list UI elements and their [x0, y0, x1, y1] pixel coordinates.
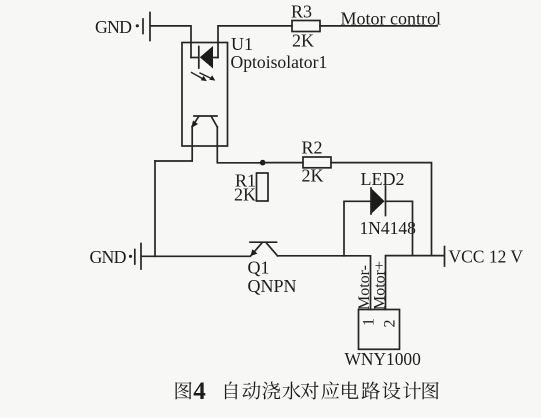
svg-text:2: 2 [381, 320, 398, 328]
transistor Q1 [248, 242, 297, 296]
svg-text:R2: R2 [302, 137, 323, 157]
ground GND (top-left) [95, 13, 150, 41]
resistor R3 [291, 2, 320, 51]
svg-text:R3: R3 [291, 2, 312, 22]
wire: diode to right vertical down to VCC rail [386, 201, 413, 255]
power VCC [445, 246, 524, 266]
svg-text:LED2: LED2 [361, 169, 405, 189]
svg-text:GND: GND [90, 247, 127, 267]
wire: Q1 collector to Motor- pin [278, 256, 371, 310]
svg-text:2K: 2K [292, 31, 314, 51]
phototransistor inside U1 [194, 115, 217, 117]
svg-text:2K: 2K [234, 185, 256, 205]
ground GND (bottom-left) [90, 244, 142, 270]
resistor R2 [302, 137, 332, 185]
wire: R2 to right vertical, down to VCC rail [331, 163, 432, 256]
wire: junction to R2 [263, 162, 303, 164]
svg-text:Motor control: Motor control [341, 9, 442, 29]
wire: left vertical down to ground rail [154, 161, 156, 256]
svg-text:U1: U1 [231, 34, 253, 54]
optoisolator U1 [182, 43, 228, 147]
svg-text:QNPN: QNPN [248, 276, 297, 296]
svg-text:GND: GND [95, 17, 132, 37]
svg-text:4: 4 [193, 378, 206, 405]
wire: U1 collector pin down to R2 node [217, 127, 262, 163]
wire: U1 emitter pin to left vertical [155, 127, 192, 162]
svg-text:2K: 2K [302, 166, 324, 186]
svg-text:1: 1 [361, 318, 378, 326]
diode LED2 1N4148 [360, 169, 417, 238]
light arrows [192, 73, 204, 80]
svg-text:Motor-: Motor- [356, 265, 373, 310]
wire: diode loop left vertical [344, 201, 371, 256]
svg-text:VCC 12 V: VCC 12 V [449, 246, 524, 266]
svg-text:Q1: Q1 [248, 258, 270, 278]
svg-text:Optoisolator1: Optoisolator1 [231, 52, 328, 72]
wire: ground rail to Q1 emitter [142, 255, 250, 257]
wire: top GND to U1 anode pin [151, 26, 191, 58]
wire: U1 cathode pin up and right to R3 [218, 26, 292, 58]
node: junction at R1 top [260, 160, 266, 166]
LED inside U1 [191, 57, 198, 59]
svg-text:WNY1000: WNY1000 [345, 349, 422, 369]
caption: 图4 自动浇水对应电路设计图 [176, 378, 439, 405]
connector WNY1000 [345, 310, 422, 370]
svg-text:Motor+: Motor+ [372, 261, 389, 310]
svg-text:1N4148: 1N4148 [360, 218, 417, 238]
wire: Motor+ pin up to VCC rail segment [386, 256, 445, 310]
wire/net: Motor control stub [320, 25, 437, 27]
resistor R1 [234, 171, 268, 205]
